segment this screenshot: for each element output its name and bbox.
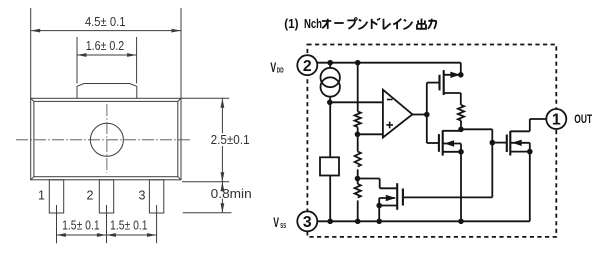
svg-text:2: 2 [87,189,94,203]
svg-text:DD: DD [277,65,284,74]
svg-text:2: 2 [303,58,312,75]
svg-text:V: V [270,59,276,75]
svg-text:1.5± 0.1: 1.5± 0.1 [62,218,100,232]
svg-text:1.6± 0.2: 1.6± 0.2 [86,39,125,53]
svg-text:1: 1 [38,189,45,203]
svg-text:3: 3 [139,189,146,203]
svg-text:1.5± 0.1: 1.5± 0.1 [110,218,148,232]
svg-text:2.5±0.1: 2.5±0.1 [211,133,250,147]
svg-text:(1): (1) [284,17,298,31]
svg-text:4.5± 0.1: 4.5± 0.1 [85,15,126,29]
svg-text:SS: SS [280,221,286,230]
svg-text:0.8min: 0.8min [211,187,252,201]
svg-text:OUT: OUT [574,114,592,126]
svg-text:3: 3 [303,214,312,231]
svg-text:V: V [273,214,279,230]
svg-text:1: 1 [552,112,561,129]
svg-text:Nch: Nch [304,17,322,31]
